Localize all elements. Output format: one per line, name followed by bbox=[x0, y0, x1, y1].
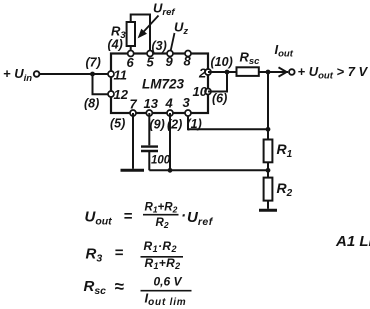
wire pin 10 loop bbox=[208, 72, 227, 92]
wire pin 13 to capacitor bbox=[148, 113, 150, 145]
resistor Rsc bbox=[237, 50, 261, 76]
svg-text:12: 12 bbox=[114, 87, 129, 102]
wire pin 2 to Rsc bbox=[208, 71, 237, 73]
svg-text:R2: R2 bbox=[156, 217, 169, 230]
wire input to pin 11 bbox=[40, 73, 112, 75]
pin 8 bbox=[184, 51, 192, 69]
svg-text:(6): (6) bbox=[212, 92, 227, 106]
svg-text:Uout: Uout bbox=[85, 209, 113, 228]
svg-text:Iout lim: Iout lim bbox=[145, 291, 187, 309]
pin 6 bbox=[127, 51, 135, 71]
resistor R3 bbox=[111, 22, 135, 46]
svg-text:(5): (5) bbox=[110, 117, 125, 131]
wire R3 top rail to pin 5 bbox=[131, 15, 150, 54]
svg-text:+ Uin: + Uin bbox=[3, 66, 32, 84]
svg-text:=: = bbox=[115, 245, 124, 262]
svg-text:3: 3 bbox=[183, 95, 191, 110]
svg-text:9: 9 bbox=[166, 54, 174, 69]
svg-text:(9): (9) bbox=[150, 118, 165, 132]
svg-text:2: 2 bbox=[198, 66, 207, 81]
svg-text:(7): (7) bbox=[86, 56, 101, 70]
svg-text:·: · bbox=[181, 208, 186, 225]
svg-text:11: 11 bbox=[114, 68, 128, 83]
wire capacitor to bottom rail bbox=[148, 152, 150, 170]
wire bottom rail to divider tap bbox=[149, 169, 268, 171]
svg-text:R1·R2: R1·R2 bbox=[144, 239, 177, 254]
junction input node bbox=[90, 72, 95, 77]
pin 4 bbox=[165, 96, 174, 117]
resistor R1 bbox=[264, 129, 293, 162]
svg-text:100: 100 bbox=[151, 155, 171, 167]
svg-text:(10): (10) bbox=[211, 55, 233, 69]
pin 9 bbox=[166, 51, 174, 70]
svg-text:R1+R2: R1+R2 bbox=[145, 256, 181, 271]
pin 12 bbox=[108, 87, 129, 102]
svg-text:R2: R2 bbox=[277, 180, 293, 199]
node Uref label with arrow bbox=[138, 1, 176, 39]
svg-text:7: 7 bbox=[130, 97, 138, 112]
formula R3 bbox=[86, 239, 184, 271]
op-amp U1 LM723 body bbox=[111, 54, 208, 114]
pin 5 bbox=[147, 51, 155, 70]
svg-text:(4): (4) bbox=[108, 38, 123, 52]
svg-text:R1: R1 bbox=[277, 141, 293, 160]
pin 10 bbox=[193, 84, 212, 99]
svg-text:A1 LM: A1 LM bbox=[335, 233, 370, 250]
resistor R2 bbox=[264, 178, 293, 201]
wire pin 4 down bbox=[169, 113, 171, 170]
node +Uin input terminal bbox=[3, 66, 39, 84]
svg-text:Uz: Uz bbox=[174, 20, 188, 38]
svg-text:8: 8 bbox=[184, 54, 192, 69]
svg-text:Uref: Uref bbox=[187, 209, 214, 228]
svg-text:Rsc: Rsc bbox=[240, 50, 261, 68]
svg-text:+ Uout > 7 V: + Uout > 7 V bbox=[298, 64, 369, 82]
pin 2 bbox=[198, 66, 211, 81]
svg-text:(3): (3) bbox=[152, 39, 167, 53]
ground R2 bbox=[259, 209, 277, 212]
svg-text:(1): (1) bbox=[187, 117, 202, 131]
svg-text:5: 5 bbox=[147, 55, 155, 70]
pin 7 bbox=[130, 97, 138, 117]
svg-text:0,6 V: 0,6 V bbox=[154, 275, 183, 289]
svg-text:Iout: Iout bbox=[275, 42, 294, 60]
wire Rsc to output node bbox=[259, 71, 268, 73]
node Uz label bbox=[171, 20, 189, 51]
junction pin 4 on rail bbox=[168, 168, 173, 173]
junction R1 top bbox=[266, 127, 271, 132]
svg-text:R1+R2: R1+R2 bbox=[145, 201, 178, 214]
wire pin 6 to R3 bbox=[130, 46, 132, 54]
svg-text:=: = bbox=[124, 208, 133, 225]
wire pin 7 down bbox=[132, 113, 134, 169]
svg-text:Uref: Uref bbox=[153, 1, 175, 19]
node +Uout output terminal bbox=[289, 64, 369, 82]
junction output node bbox=[266, 70, 271, 75]
svg-text:4: 4 bbox=[165, 96, 174, 111]
svg-text:13: 13 bbox=[144, 96, 159, 111]
wire input loop to pin 12 bbox=[93, 74, 112, 94]
wire pin 3 to R1 top node bbox=[188, 113, 268, 129]
junction pin2/pin10 bbox=[225, 70, 230, 75]
formula Rsc bbox=[84, 275, 192, 309]
pin 3 bbox=[183, 95, 192, 116]
formula Uout bbox=[85, 201, 214, 230]
pin 11 bbox=[108, 68, 127, 83]
capacitor C1 100 bbox=[141, 147, 171, 167]
svg-text:10: 10 bbox=[193, 84, 208, 99]
svg-text:LM723: LM723 bbox=[142, 77, 185, 92]
svg-text:Rsc: Rsc bbox=[84, 278, 107, 297]
svg-text:≈: ≈ bbox=[115, 277, 125, 296]
wire output node to terminal with Iout arrow bbox=[268, 42, 294, 77]
ground pin 7 bbox=[121, 169, 145, 172]
wire output node down to R1 bbox=[267, 72, 269, 129]
svg-text:6: 6 bbox=[127, 55, 135, 70]
svg-text:(8): (8) bbox=[84, 97, 99, 111]
svg-text:R3: R3 bbox=[86, 246, 103, 265]
wire R2 to ground bbox=[267, 201, 269, 209]
pin 13 bbox=[144, 96, 159, 116]
junction divider tap bbox=[266, 162, 271, 177]
